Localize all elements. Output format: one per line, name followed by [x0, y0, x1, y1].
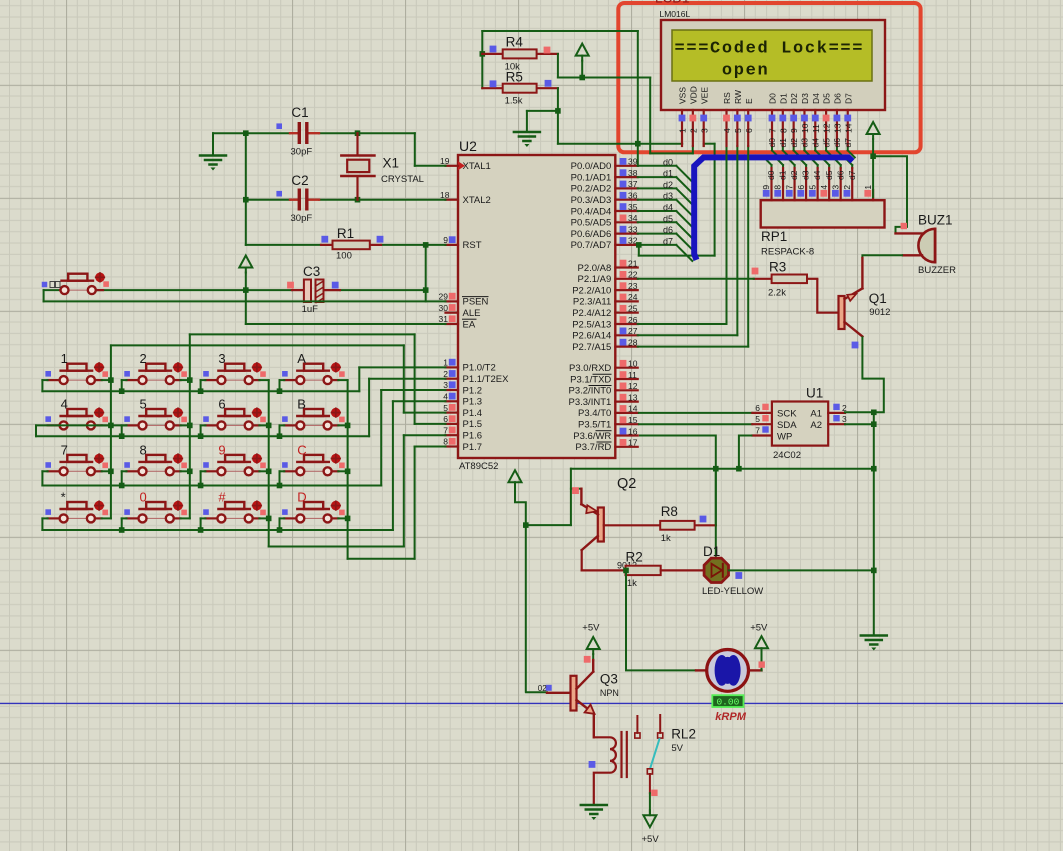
svg-text:18: 18	[440, 190, 450, 200]
wire C1 top net / XTAL1	[213, 133, 446, 166]
svg-text:Q2: Q2	[617, 476, 636, 492]
svg-text:29: 29	[439, 292, 449, 302]
wire key * right lead to column	[102, 517, 111, 519]
resistor R5	[482, 69, 558, 106]
power +5V reset rail	[239, 256, 252, 273]
svg-text:8: 8	[773, 185, 783, 190]
svg-text:d4: d4	[663, 203, 673, 213]
svg-text:P3.4/T0: P3.4/T0	[578, 408, 611, 419]
svg-text:5V: 5V	[671, 743, 683, 754]
svg-text:RP1: RP1	[761, 229, 787, 244]
rpm readout display	[712, 695, 746, 723]
svg-text:D3: D3	[800, 93, 810, 104]
wire Q3 base net	[526, 691, 547, 693]
svg-text:13: 13	[628, 392, 638, 402]
wire key 8 left drop	[119, 471, 127, 488]
svg-text:9: 9	[443, 235, 448, 245]
wire Q2 emitter net horizontal	[571, 466, 877, 472]
wire key 8 right lead to column	[181, 470, 190, 472]
svg-text:P0.5/AD5: P0.5/AD5	[571, 218, 612, 229]
svg-text:CRYSTAL: CRYSTAL	[381, 174, 424, 185]
svg-text:RST: RST	[463, 240, 482, 251]
svg-text:2: 2	[842, 185, 852, 190]
wire key 1 right lead to column	[102, 379, 111, 381]
junction node +5V stem	[579, 75, 585, 81]
push button key 1	[45, 351, 108, 384]
svg-text:D7: D7	[843, 93, 853, 104]
svg-text:1: 1	[61, 351, 68, 366]
wire key 4 right lead to column	[102, 424, 111, 426]
svg-text:3: 3	[218, 351, 225, 366]
svg-text:d6: d6	[663, 225, 673, 235]
svg-text:23: 23	[628, 281, 638, 291]
microcontroller U2 AT89C52	[439, 138, 638, 472]
svg-text:WP: WP	[777, 432, 792, 443]
svg-text:P3.0/RXD: P3.0/RXD	[569, 363, 611, 374]
svg-text:R4: R4	[506, 35, 524, 50]
svg-text:33: 33	[628, 224, 638, 234]
svg-text:RESPACK-8: RESPACK-8	[761, 247, 814, 258]
svg-text:R8: R8	[661, 504, 678, 519]
svg-text:P3.7/RD: P3.7/RD	[575, 442, 611, 453]
svg-text:35: 35	[628, 202, 638, 212]
wire key # left drop	[198, 518, 206, 532]
svg-text:02: 02	[538, 684, 547, 693]
wire motor left net	[626, 570, 696, 670]
wire Q3 emitter to relay coil	[593, 714, 595, 738]
transistor Q2 9012	[572, 476, 637, 571]
svg-text:26: 26	[628, 315, 638, 325]
svg-text:22: 22	[628, 270, 638, 280]
wire key 5 right lead to column	[181, 424, 190, 426]
wire R3 to Q1 base	[817, 279, 838, 313]
svg-text:XTAL2: XTAL2	[463, 195, 491, 206]
svg-text:LCD1: LCD1	[655, 0, 690, 6]
push button key A	[282, 351, 345, 384]
svg-text:7: 7	[61, 442, 68, 457]
svg-text:d7: d7	[663, 236, 673, 246]
svg-text:D0: D0	[768, 93, 778, 104]
push button key B	[282, 396, 345, 429]
svg-text:#: #	[218, 489, 226, 504]
resistor R3	[752, 260, 818, 299]
svg-text:RW: RW	[733, 90, 743, 104]
svg-text:d5: d5	[824, 170, 834, 180]
wire key 9 right lead to column	[259, 470, 268, 472]
svg-text:P2.2/A10: P2.2/A10	[572, 285, 611, 296]
svg-text:P1.4: P1.4	[463, 408, 483, 419]
svg-text:3: 3	[830, 185, 840, 190]
wire key 2 left drop	[119, 380, 127, 394]
wire key # right lead to column	[259, 517, 268, 519]
svg-text:0.00: 0.00	[716, 697, 739, 708]
svg-text:EA: EA	[463, 319, 476, 330]
svg-text:d3: d3	[801, 170, 811, 180]
svg-text:P2.6/A14: P2.6/A14	[572, 331, 611, 342]
wire E net (P2.7)	[638, 146, 749, 347]
svg-text:P2.3/A11: P2.3/A11	[573, 297, 611, 308]
svg-text:d7: d7	[847, 170, 857, 180]
wire key 5 left drop	[119, 425, 127, 439]
svg-text:VEE: VEE	[699, 87, 709, 104]
svg-text:d2: d2	[789, 170, 799, 180]
svg-text:P0.1/AD1: P0.1/AD1	[571, 172, 612, 183]
svg-text:P0.0/AD0: P0.0/AD0	[571, 161, 612, 172]
svg-text:P1.7: P1.7	[463, 442, 483, 453]
svg-text:A1: A1	[810, 409, 822, 420]
svg-text:D1: D1	[703, 544, 720, 559]
resistor R2	[626, 550, 703, 590]
wire key 0 left drop	[119, 518, 127, 532]
svg-text:ALE: ALE	[463, 308, 481, 319]
wire keypad row 3 net (P1.2)	[42, 390, 445, 486]
svg-text:BUZ1: BUZ1	[918, 213, 953, 228]
svg-text:E: E	[744, 98, 754, 104]
svg-text:2: 2	[443, 369, 448, 379]
svg-text:X1: X1	[383, 156, 400, 171]
wire key A left drop	[277, 380, 285, 394]
wire key 9 left drop	[198, 471, 206, 488]
wire PSEN net	[44, 290, 446, 301]
svg-text:AT89C52: AT89C52	[459, 461, 498, 472]
svg-text:LED-YELLOW: LED-YELLOW	[702, 586, 763, 597]
wire Q2 emitter branch	[526, 469, 582, 525]
junction node crystal bottom	[355, 197, 361, 203]
wire VEE to d7 loop	[636, 144, 715, 256]
push button key 4	[45, 396, 108, 429]
svg-text:NPN: NPN	[600, 688, 619, 698]
wire D1 to right rail	[729, 568, 877, 574]
svg-text:d7: d7	[843, 138, 853, 148]
svg-text:+5V: +5V	[582, 623, 600, 634]
svg-text:6: 6	[796, 185, 806, 190]
svg-text:9: 9	[761, 185, 771, 190]
junction node R4 left	[480, 51, 486, 57]
svg-text:2: 2	[140, 351, 147, 366]
wire VEE divider rail	[482, 31, 638, 166]
svg-text:D6: D6	[833, 93, 843, 104]
svg-text:d4: d4	[812, 170, 822, 180]
svg-text:3: 3	[443, 380, 448, 390]
wire keypad column 3 net (P1.6)	[266, 380, 446, 546]
svg-text:6: 6	[744, 128, 754, 133]
push button key 6	[203, 396, 266, 429]
svg-text:17: 17	[628, 438, 638, 448]
svg-text:RL2: RL2	[671, 727, 696, 742]
svg-text:37: 37	[628, 179, 638, 189]
wire Q2 base to R8	[604, 524, 660, 526]
wire buzzer top net	[873, 156, 907, 233]
svg-text:P0.4/AD4: P0.4/AD4	[571, 206, 612, 217]
svg-text:5: 5	[140, 396, 147, 411]
svg-text:1k: 1k	[661, 533, 671, 544]
svg-text:28: 28	[628, 337, 638, 347]
ground above U2	[514, 132, 540, 147]
wire key B left drop	[277, 425, 285, 439]
power +5V relay contact	[642, 793, 660, 845]
wire R3 net (P2.1)	[638, 278, 754, 280]
svg-text:P2.4/A12: P2.4/A12	[572, 308, 611, 319]
push button reset	[42, 273, 109, 295]
junction node WP	[736, 466, 742, 472]
svg-text:d0: d0	[767, 138, 777, 148]
wire RS net (P2.5)	[638, 146, 727, 324]
svg-text:2: 2	[688, 128, 698, 133]
svg-text:d3: d3	[663, 191, 673, 201]
svg-text:24: 24	[628, 292, 638, 302]
power +5V Q3 collector	[582, 623, 600, 672]
svg-text:P1.6: P1.6	[463, 431, 483, 442]
wire motor right to +5V	[749, 623, 769, 671]
svg-text:3: 3	[842, 414, 847, 424]
svg-text:LM016L: LM016L	[660, 9, 691, 19]
svg-text:C3: C3	[303, 264, 320, 279]
svg-text:d2: d2	[663, 180, 673, 190]
svg-text:P0.6/AD6: P0.6/AD6	[571, 229, 612, 240]
svg-text:d1: d1	[778, 170, 788, 180]
svg-text:16: 16	[628, 426, 638, 436]
wire RW net (P2.6)	[638, 146, 738, 335]
crystal X1	[341, 133, 424, 200]
svg-text:1uF: 1uF	[302, 304, 319, 315]
capacitor C1	[276, 105, 319, 158]
wire keypad row 2 net (P1.1)	[36, 379, 446, 437]
svg-text:Q3: Q3	[600, 672, 618, 687]
wire key 2 right lead to column	[181, 379, 190, 381]
wire A1 A2 nets	[845, 410, 877, 428]
svg-text:10: 10	[628, 359, 638, 369]
svg-text:P1.5: P1.5	[463, 419, 483, 430]
junction node C3 left	[243, 287, 249, 293]
svg-text:open: open	[722, 62, 769, 81]
svg-text:d5: d5	[663, 214, 673, 224]
push button key D	[282, 489, 345, 522]
svg-text:P2.5/A13: P2.5/A13	[572, 319, 611, 330]
svg-text:4: 4	[722, 128, 732, 133]
svg-text:3: 3	[699, 128, 709, 133]
svg-text:7: 7	[768, 128, 778, 133]
svg-text:8: 8	[443, 437, 448, 447]
svg-text:7: 7	[784, 185, 794, 190]
svg-text:11: 11	[811, 124, 821, 133]
svg-text:38: 38	[628, 168, 638, 178]
transistor Q3 NPN	[538, 672, 619, 714]
svg-text:10: 10	[800, 123, 810, 133]
eeprom U1 24C02	[752, 386, 847, 462]
svg-text:D4: D4	[811, 93, 821, 104]
wire keypad column 1 net (P1.4)	[108, 345, 445, 518]
svg-text:8: 8	[778, 128, 788, 133]
wire right rail	[873, 412, 875, 635]
svg-text:B: B	[297, 396, 306, 411]
svg-text:P1.3: P1.3	[463, 397, 483, 408]
svg-text:11: 11	[628, 370, 637, 380]
wire key D left drop	[277, 518, 285, 532]
ground right rail	[861, 636, 887, 651]
power +5V near Q2	[509, 470, 526, 693]
junction node C2 left	[243, 197, 249, 203]
junction node R8 right	[713, 466, 719, 472]
wire WP net	[739, 436, 753, 469]
wire keypad row 1 net (P1.0)	[42, 367, 445, 391]
svg-text:14: 14	[628, 404, 638, 414]
svg-text:9012: 9012	[869, 307, 890, 318]
wire key 3 right lead to column	[259, 379, 268, 381]
wire key 6 right lead to column	[259, 424, 268, 426]
svg-text:+5V: +5V	[642, 834, 660, 845]
svg-text:R1: R1	[337, 226, 354, 241]
transistor Q1 9012	[839, 288, 891, 348]
svg-text:39: 39	[628, 157, 638, 167]
svg-text:D2: D2	[789, 93, 799, 104]
svg-text:Q1: Q1	[869, 291, 887, 306]
svg-text:15: 15	[628, 415, 638, 425]
wire key 7 right lead to column	[102, 470, 111, 472]
svg-text:14: 14	[843, 123, 853, 133]
svg-text:5: 5	[733, 128, 743, 133]
svg-text:30pF: 30pF	[291, 147, 313, 158]
wire P0 data d0-d7 to bus	[638, 166, 693, 261]
svg-text:30: 30	[439, 303, 449, 313]
push button key C	[282, 442, 345, 475]
ground relay coil	[581, 805, 607, 820]
wire key B right lead to column	[338, 424, 347, 426]
bus P0/LCD data	[694, 157, 852, 260]
resistor pack RP1 RESPACK-8	[761, 168, 885, 258]
push button key #	[203, 489, 266, 522]
wire key C right lead to column	[338, 470, 347, 472]
resistor R4	[482, 35, 558, 73]
selection highlight box around LCD	[618, 3, 920, 152]
wire key D right lead to column	[338, 517, 347, 519]
wire key C left drop	[277, 471, 285, 488]
power +5V near R4	[576, 44, 589, 78]
lcd display LCD1 LM016L	[655, 0, 885, 147]
svg-text:P3.1/TXD: P3.1/TXD	[570, 374, 611, 385]
svg-text:5: 5	[755, 414, 760, 424]
junction node motor tap	[623, 568, 629, 574]
svg-text:21: 21	[628, 258, 638, 268]
svg-text:25: 25	[628, 304, 638, 314]
led D1 LED-YELLOW	[702, 544, 763, 597]
wire RST net	[246, 200, 446, 290]
svg-text:RS: RS	[722, 92, 732, 104]
wire keypad column 2 net (P1.5)	[187, 334, 446, 518]
svg-text:d5: d5	[821, 138, 831, 148]
svg-text:4: 4	[819, 185, 829, 190]
junction node RP1 +5V	[870, 153, 876, 159]
svg-text:36: 36	[628, 191, 638, 201]
svg-text:C2: C2	[291, 173, 308, 188]
wire R8 up	[715, 469, 717, 526]
push button key 2	[124, 351, 187, 384]
power +5V RP1 common	[867, 122, 880, 197]
svg-text:P1.2: P1.2	[463, 385, 483, 396]
sheet border line	[0, 702, 1063, 704]
svg-text:d0: d0	[766, 170, 776, 180]
wire key 3 left drop	[198, 380, 206, 394]
wire keypad column 4 net (P1.7)	[345, 380, 446, 559]
junction node RST	[423, 242, 429, 248]
wire LCD D0-D7 to bus	[772, 146, 855, 157]
svg-text:13: 13	[833, 123, 843, 133]
svg-text:P1.0/T2: P1.0/T2	[463, 363, 496, 374]
svg-text:P0.3/AD3: P0.3/AD3	[571, 195, 612, 206]
svg-text:C: C	[297, 442, 306, 457]
wire keypad row 4 net (P1.3)	[42, 401, 445, 530]
svg-text:SDA: SDA	[777, 420, 797, 431]
svg-text:P2.1/A9: P2.1/A9	[577, 274, 611, 285]
motor M1	[696, 650, 748, 692]
svg-text:P0.7/AD7: P0.7/AD7	[571, 240, 612, 251]
svg-text:d3: d3	[800, 138, 810, 148]
svg-text:12: 12	[628, 381, 638, 391]
svg-text:9: 9	[789, 128, 799, 133]
push button key 3	[203, 351, 266, 384]
svg-text:D5: D5	[822, 93, 832, 104]
svg-text:d2: d2	[789, 138, 799, 148]
svg-text:d1: d1	[778, 138, 788, 148]
svg-text:6: 6	[755, 403, 760, 413]
wire key 0 right lead to column	[181, 517, 190, 519]
svg-text:P3.5/T1: P3.5/T1	[578, 420, 611, 431]
svg-text:7: 7	[755, 426, 760, 436]
svg-text:6: 6	[443, 414, 448, 424]
push button key 8	[124, 442, 187, 475]
svg-text:+5V: +5V	[750, 623, 768, 634]
svg-text:VSS: VSS	[678, 87, 688, 104]
svg-text:P3.2/INT0: P3.2/INT0	[569, 386, 612, 397]
wire RP1 d0-d7 to bus	[764, 157, 852, 168]
svg-text:R2: R2	[626, 550, 643, 565]
svg-text:8: 8	[140, 442, 147, 457]
junction node C1 left	[243, 130, 249, 136]
wire EA net vertical	[246, 273, 446, 325]
junction node C3 right	[423, 287, 429, 293]
svg-text:1.5k: 1.5k	[505, 96, 523, 107]
svg-text:P0.2/AD2: P0.2/AD2	[571, 184, 612, 195]
svg-text:4: 4	[61, 396, 68, 411]
wire Q1 collector net	[862, 336, 883, 412]
push button key 0	[124, 489, 187, 522]
svg-text:5: 5	[807, 185, 817, 190]
svg-text:9: 9	[218, 442, 225, 457]
svg-text:100: 100	[336, 251, 352, 262]
svg-text:d6: d6	[835, 170, 845, 180]
push button key 7	[45, 442, 108, 475]
svg-text:===Coded Lock===: ===Coded Lock===	[675, 40, 865, 59]
svg-text:SCK: SCK	[777, 409, 797, 420]
svg-text:24C02: 24C02	[773, 450, 801, 461]
svg-text:2.2k: 2.2k	[768, 288, 786, 299]
junction node divider-rail crossing	[635, 141, 641, 147]
svg-text:P3.3/INT1: P3.3/INT1	[569, 397, 612, 408]
svg-text:C1: C1	[291, 105, 308, 120]
wire SCK net (P3.4)	[639, 412, 753, 414]
svg-text:BUZZER: BUZZER	[918, 265, 956, 276]
svg-text:VDD: VDD	[688, 86, 698, 104]
wire SDA net (P3.5)	[639, 423, 753, 425]
junction node Q2 +5V	[523, 522, 529, 528]
svg-text:kRPM: kRPM	[715, 711, 746, 723]
push button key 5	[124, 396, 187, 429]
junction node R5 ground tap	[555, 108, 561, 114]
svg-text:A2: A2	[810, 420, 822, 431]
svg-text:19: 19	[440, 156, 450, 166]
svg-text:R3: R3	[769, 260, 786, 275]
svg-text:*: *	[61, 489, 66, 504]
svg-text:30pF: 30pF	[291, 213, 313, 224]
